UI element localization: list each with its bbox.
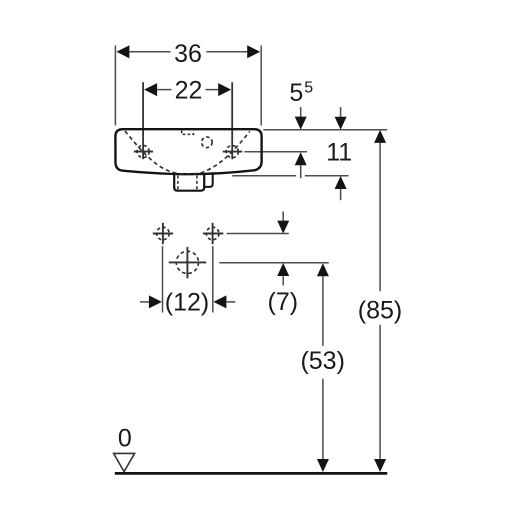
- svg-text:11: 11: [326, 139, 352, 167]
- dimension (53) lower arrow: [317, 459, 329, 472]
- left wall hole cross horizontal: [153, 233, 173, 235]
- dimension 22 line right segment: [206, 89, 219, 91]
- left wall hole cross vertical: [162, 223, 164, 244]
- dimension 36 arrow right: [247, 45, 260, 58]
- extension line right of dim 36: [260, 46, 262, 126]
- svg-text:(85): (85): [358, 297, 402, 325]
- dimension (53) line lower segment: [322, 379, 324, 460]
- extension line right of dim 22 / right tap centerline: [231, 82, 233, 159]
- wall drain dashed circle: [176, 251, 198, 273]
- drain siphon tab: [204, 172, 213, 187]
- extension line left of dim 36: [114, 46, 116, 126]
- dimension (12) right arrow: [213, 295, 226, 308]
- dimension (7) upper arrow: [277, 221, 289, 234]
- extension line top edge of basin to (85): [263, 129, 387, 131]
- wall drain cross vertical: [186, 247, 188, 279]
- dimension 11 lower arrow: [335, 176, 347, 189]
- dimension 5.5 upper arrow tail: [300, 107, 302, 118]
- basin bowl dashed curve: [125, 131, 250, 174]
- extension line left of dim 22 / left tap centerline: [142, 82, 144, 159]
- extension line tap hole level: [245, 151, 308, 153]
- dimension 11 upper arrow: [335, 117, 347, 130]
- drain dashed inner line left: [177, 176, 179, 190]
- svg-text:22: 22: [175, 77, 203, 105]
- dimension 5.5 lower arrow: [295, 152, 307, 165]
- dimension 36 line left segment: [129, 51, 171, 53]
- extension line below left wall hole: [162, 246, 164, 312]
- svg-text:36: 36: [174, 40, 202, 68]
- dimension 11 lower arrow tail: [340, 189, 342, 201]
- left tap hole cross arm: [134, 151, 153, 153]
- right wall hole cross vertical: [212, 223, 214, 244]
- wall drain cross horizontal: [169, 261, 207, 263]
- left tap hole dashed circle: [137, 145, 149, 157]
- dimension 22 line left segment: [157, 89, 172, 91]
- dimension 36 arrow left: [116, 45, 129, 58]
- overflow dashed circle: [202, 137, 213, 148]
- dimension (85) lower arrow: [374, 459, 386, 472]
- dimension 5.5 upper arrow: [295, 117, 307, 130]
- svg-text:(53): (53): [300, 347, 344, 375]
- zero level datum triangle: [114, 453, 135, 471]
- dimension 11 upper arrow tail: [340, 107, 342, 118]
- svg-text:5: 5: [289, 79, 303, 107]
- extension line wall hole level: [227, 233, 289, 235]
- extension line basin bottom left segment: [232, 175, 296, 177]
- dimension (12) left arrow tail: [140, 301, 150, 303]
- dimension (7) upper arrow tail: [282, 212, 284, 222]
- dimension (85) line upper segment: [379, 143, 381, 292]
- dimension (53) line upper segment: [322, 276, 324, 346]
- right wall hole cross horizontal: [203, 233, 223, 235]
- dimension (7) lower arrow tail: [282, 276, 284, 286]
- dimension (7) lower arrow: [277, 263, 289, 276]
- drain siphon outline: [174, 174, 204, 191]
- svg-text:0: 0: [118, 424, 132, 452]
- right tap hole cross arm: [223, 151, 243, 153]
- right wall hole dashed circle: [206, 227, 219, 240]
- basin outline: [115, 129, 261, 174]
- svg-text:(7): (7): [268, 288, 299, 316]
- svg-text:5: 5: [304, 80, 313, 97]
- dimension 22 arrow left: [144, 83, 157, 96]
- top center dashed fixing mark: [182, 131, 194, 135]
- extension line basin bottom right segment: [305, 175, 349, 177]
- dimension 36 line right segment: [206, 51, 247, 53]
- dimension (85) upper arrow: [374, 130, 386, 143]
- drain dashed inner line right: [196, 176, 198, 190]
- dimension (53) upper arrow: [317, 263, 329, 276]
- svg-text:(12): (12): [165, 288, 209, 316]
- dimension (12) right arrow tail: [226, 301, 235, 303]
- left wall hole dashed circle: [157, 227, 170, 240]
- dimension (85) line lower segment: [379, 325, 381, 460]
- extension line drain level: [219, 262, 328, 264]
- right tap hole dashed circle: [226, 146, 238, 158]
- ground line: [115, 472, 387, 475]
- dimension (12) left arrow: [149, 295, 162, 308]
- dimension 5.5 lower arrow tail: [300, 165, 302, 178]
- extension line below right wall hole: [212, 246, 214, 312]
- dimension 22 arrow right: [218, 83, 231, 96]
